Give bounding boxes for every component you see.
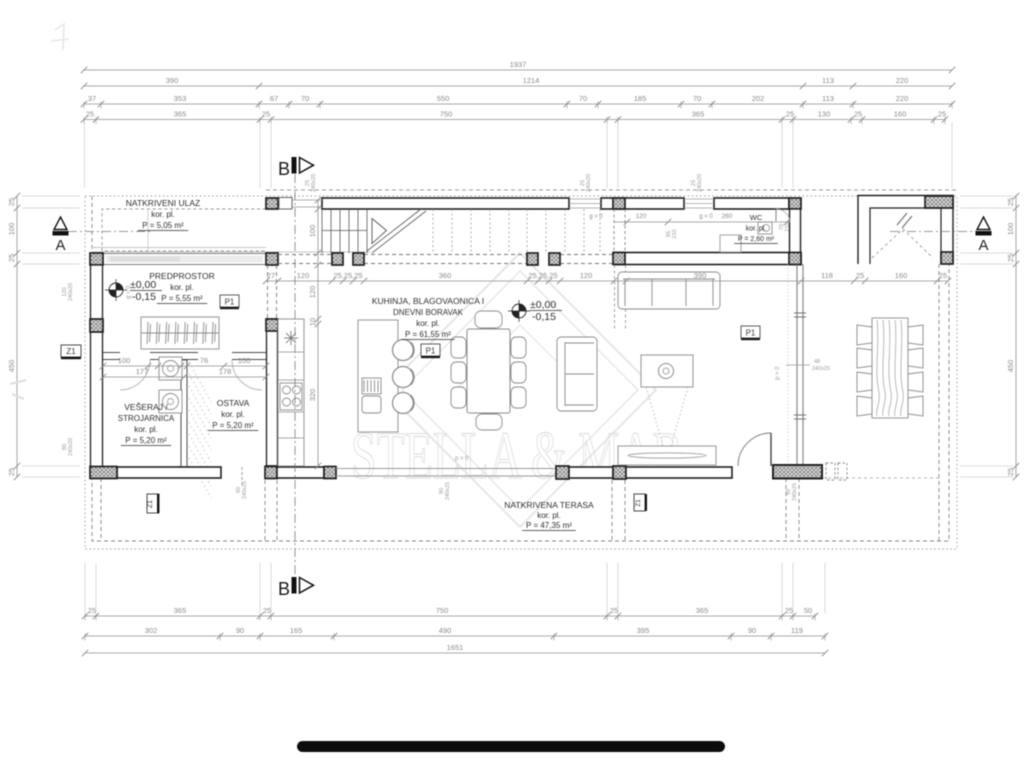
dining chairs left xyxy=(451,337,466,358)
terrace door arc xyxy=(738,433,771,466)
sliding door pocket hatched xyxy=(773,465,822,479)
svg-text:25: 25 xyxy=(610,606,618,615)
svg-text:113: 113 xyxy=(822,94,834,103)
svg-text:365: 365 xyxy=(174,606,187,615)
svg-text:240x25: 240x25 xyxy=(445,482,451,500)
stair break line xyxy=(367,209,426,253)
svg-text:360: 360 xyxy=(439,271,452,280)
dimension chain top row4 xyxy=(81,110,948,125)
interior dimension chain horizontal xyxy=(263,271,951,284)
label box P1 predprostor xyxy=(220,295,239,309)
wall: south band west wing xyxy=(117,467,221,478)
svg-text:P1: P1 xyxy=(426,347,436,356)
column south b xyxy=(324,467,336,479)
svg-text:240x20: 240x20 xyxy=(68,438,74,456)
svg-text:240x20: 240x20 xyxy=(586,174,592,192)
svg-text:kor. pl.: kor. pl. xyxy=(746,226,767,233)
svg-text:240x20: 240x20 xyxy=(68,283,74,301)
room label kuhinja dnevni boravak xyxy=(372,296,484,340)
svg-text:120: 120 xyxy=(308,286,317,299)
leader dim 48 xyxy=(786,364,810,366)
kitchen stove burners xyxy=(280,383,302,410)
svg-text:70: 70 xyxy=(579,94,587,103)
svg-text:-0,15: -0,15 xyxy=(532,311,556,323)
svg-text:70: 70 xyxy=(693,94,701,103)
kitchen sink star xyxy=(284,331,298,345)
label box P1 living xyxy=(421,344,440,358)
svg-text:Z1: Z1 xyxy=(147,500,154,508)
column north-entry xyxy=(266,198,278,209)
svg-text:KUHINJA, BLAGOVAONICA I: KUHINJA, BLAGOVAONICA I xyxy=(372,296,484,306)
dimension chain top row2 xyxy=(81,76,955,89)
svg-text:25: 25 xyxy=(88,606,96,615)
glass wall east of living room xyxy=(794,264,806,464)
svg-text:220: 220 xyxy=(896,94,909,103)
svg-text:1651: 1651 xyxy=(447,643,464,652)
svg-text:25: 25 xyxy=(263,606,271,615)
svg-text:50: 50 xyxy=(804,606,812,615)
tv board xyxy=(618,446,716,465)
wall: south band b xyxy=(277,467,324,478)
svg-text:25: 25 xyxy=(1006,254,1015,262)
column WC south-west xyxy=(613,253,625,265)
svg-text:118: 118 xyxy=(821,271,833,280)
column kitchen-wall upper xyxy=(266,319,278,331)
sofa vertical xyxy=(557,337,597,411)
svg-text:VEŠERAJ /: VEŠERAJ / xyxy=(124,402,168,412)
svg-text:320: 320 xyxy=(308,389,317,402)
svg-text:120: 120 xyxy=(580,271,593,280)
column WC south-east xyxy=(789,253,801,265)
terrace chairs right xyxy=(908,325,923,345)
column kitchen-wall lower xyxy=(266,466,278,478)
island stools xyxy=(393,340,414,361)
kitchen counter xyxy=(278,319,304,466)
svg-text:120: 120 xyxy=(297,271,310,280)
wall: predprostor south divider xyxy=(103,353,266,360)
wall: middle band west segment xyxy=(103,254,266,265)
room label natkriveni ulaz xyxy=(126,198,200,231)
dashed roof line above top wall xyxy=(266,189,957,191)
column west upper xyxy=(90,319,103,332)
svg-text:P = 61,55 m²: P = 61,55 m² xyxy=(405,330,451,339)
svg-text:550: 550 xyxy=(437,94,450,103)
svg-text:PREDPROSTOR: PREDPROSTOR xyxy=(149,271,215,281)
dimension chain bottom row1 xyxy=(82,606,818,621)
column pair stairs east xyxy=(527,253,538,265)
svg-text:240x20: 240x20 xyxy=(311,174,317,192)
dining table xyxy=(467,329,510,413)
garage dashed door swing xyxy=(872,229,933,258)
inner dashed boundary left and bottom xyxy=(92,196,949,541)
wall: vesraj-ostava divider xyxy=(181,360,187,467)
svg-text:450: 450 xyxy=(1006,360,1015,373)
porch dashed outline xyxy=(102,209,266,251)
svg-text:A: A xyxy=(978,237,988,254)
svg-text:Z1: Z1 xyxy=(635,499,642,507)
svg-text:390: 390 xyxy=(694,271,707,280)
wall: WC east vertical xyxy=(790,209,801,253)
dimension chain left xyxy=(7,193,20,480)
extension lines right chain xyxy=(22,196,1013,477)
WC toilet xyxy=(720,235,741,252)
column south d xyxy=(613,466,626,479)
svg-text:37: 37 xyxy=(88,94,96,103)
faint artifact left xyxy=(10,380,26,399)
svg-text:OSTAVA: OSTAVA xyxy=(217,398,250,408)
room label predprostor xyxy=(149,271,215,304)
svg-text:WC: WC xyxy=(750,213,763,222)
WC interior dim line xyxy=(614,221,789,223)
faint artifact top-left xyxy=(51,24,69,50)
garage roof slash marks xyxy=(897,213,912,228)
svg-text:B: B xyxy=(278,159,290,179)
svg-text:kor. pl.: kor. pl. xyxy=(170,283,194,292)
column middle west xyxy=(90,253,103,265)
big hatched pier south-west xyxy=(90,467,117,479)
svg-text:100: 100 xyxy=(1006,223,1015,236)
extension lines from top dims to plan xyxy=(85,122,953,188)
svg-text:113: 113 xyxy=(822,76,834,85)
terrace dining table xyxy=(872,318,908,418)
wall: south band c xyxy=(569,467,613,478)
svg-text:-0,15: -0,15 xyxy=(132,291,156,303)
dimension chain top row1 total 1937 xyxy=(81,60,955,73)
label box Z1 small west xyxy=(147,494,159,513)
porch floor edge lines xyxy=(92,247,266,249)
column middle porch-east xyxy=(266,253,278,265)
WC door arc xyxy=(776,209,790,223)
svg-text:25: 25 xyxy=(938,110,946,119)
svg-text:1937: 1937 xyxy=(510,60,527,69)
dimension chain right xyxy=(1006,193,1019,480)
section marker A right xyxy=(977,217,990,230)
svg-text:p = 0: p = 0 xyxy=(775,366,781,380)
bottom black bar xyxy=(297,741,725,752)
svg-text:P1: P1 xyxy=(225,298,235,307)
svg-text:STROJARNICA: STROJARNICA xyxy=(118,414,175,423)
svg-text:165: 165 xyxy=(290,626,303,635)
door opening south dashes xyxy=(241,467,243,487)
column north at WC west xyxy=(613,198,625,209)
svg-text:A: A xyxy=(55,237,65,254)
svg-text:210: 210 xyxy=(785,222,791,231)
svg-text:25,25,25: 25,25,25 xyxy=(333,271,362,280)
wall: south band d xyxy=(626,467,732,478)
svg-text:25: 25 xyxy=(7,198,16,206)
svg-text:DNEVNI BORAVAK: DNEVNI BORAVAK xyxy=(393,308,464,317)
wall: WC south band xyxy=(614,253,801,265)
svg-text:240x25: 240x25 xyxy=(242,481,248,499)
WC sink xyxy=(758,222,772,234)
projection dotted lines xyxy=(646,387,688,446)
svg-text:NATKRIVENA TERASA: NATKRIVENA TERASA xyxy=(504,500,594,510)
svg-text:g = 0: g = 0 xyxy=(126,285,132,299)
column garage big xyxy=(925,196,953,208)
svg-text:25: 25 xyxy=(856,271,864,280)
svg-text:25: 25 xyxy=(786,110,794,119)
stair direction arrow xyxy=(372,219,387,244)
column south c xyxy=(556,466,569,479)
svg-text:178: 178 xyxy=(219,367,232,376)
svg-text:g = 0: g = 0 xyxy=(699,214,713,220)
svg-text:25: 25 xyxy=(1006,468,1015,476)
stair hall east wall dashed xyxy=(614,209,625,253)
svg-text:P = 5,05 m²: P = 5,05 m² xyxy=(142,221,184,230)
svg-text:450: 450 xyxy=(7,360,16,373)
svg-text:160: 160 xyxy=(895,271,908,280)
svg-text:kor. pl.: kor. pl. xyxy=(221,410,245,419)
svg-text:120: 120 xyxy=(636,213,647,220)
svg-text:90: 90 xyxy=(236,626,244,635)
kitchen island xyxy=(358,320,398,432)
room label vesraj strojarnica xyxy=(118,402,175,446)
svg-text:202: 202 xyxy=(752,94,765,103)
svg-text:P = 5,20 m²: P = 5,20 m² xyxy=(125,436,167,445)
section line A left xyxy=(68,231,150,233)
shaft dotted strip xyxy=(189,362,211,498)
dining chairs right xyxy=(511,337,526,358)
svg-text:100: 100 xyxy=(238,356,251,365)
svg-text:490: 490 xyxy=(439,626,452,635)
fireplace xyxy=(641,355,693,387)
door opening predprostor-living dashed xyxy=(268,265,277,319)
svg-text:353: 353 xyxy=(174,94,187,103)
svg-text:1214: 1214 xyxy=(523,76,540,85)
svg-text:B: B xyxy=(278,579,290,599)
label box Z1 xyxy=(61,345,81,359)
wall: west exterior xyxy=(91,265,103,467)
svg-text:365: 365 xyxy=(696,606,709,615)
svg-text:10: 10 xyxy=(308,318,317,326)
svg-text:76: 76 xyxy=(200,356,208,365)
svg-text:177: 177 xyxy=(136,367,149,376)
wall: north wall main band xyxy=(322,198,569,209)
staircase xyxy=(322,209,367,253)
svg-text:Z1: Z1 xyxy=(66,347,76,356)
column south a xyxy=(265,467,277,479)
svg-text:25: 25 xyxy=(854,110,862,119)
svg-text:390: 390 xyxy=(166,76,179,85)
wall: kitchen west (predprostor east) xyxy=(267,319,278,467)
column garage small xyxy=(941,252,953,264)
extension lines from plan to bottom dims xyxy=(85,563,825,613)
label box Z1 small terrace xyxy=(634,494,647,511)
terrace chairs left xyxy=(857,325,872,345)
dining chair bottom xyxy=(476,414,502,430)
svg-text:210: 210 xyxy=(672,229,678,238)
svg-text:kor. pl.: kor. pl. xyxy=(537,511,561,520)
svg-text:240x25: 240x25 xyxy=(812,366,830,372)
svg-text:25: 25 xyxy=(939,271,947,280)
entry door opening xyxy=(278,200,322,207)
svg-text:365: 365 xyxy=(174,110,187,119)
svg-text:160: 160 xyxy=(894,110,907,119)
svg-text:kor. pl.: kor. pl. xyxy=(416,319,440,328)
washing machine 1 xyxy=(159,357,182,380)
dimension chain top row3 xyxy=(81,94,955,109)
svg-text:100: 100 xyxy=(308,225,317,238)
svg-text:P = 5,55 m²: P = 5,55 m² xyxy=(161,294,203,303)
dining chair top xyxy=(475,311,502,328)
svg-text:119: 119 xyxy=(791,626,803,635)
svg-text:g = 0: g = 0 xyxy=(589,214,603,220)
svg-text:P = 47,35 m²: P = 47,35 m² xyxy=(526,521,572,530)
outer dotted roof boundary xyxy=(85,196,957,549)
interior chain west rooms b xyxy=(100,367,269,380)
svg-text:365: 365 xyxy=(692,110,705,119)
svg-text:P1: P1 xyxy=(746,329,756,338)
dashed wall under stairs xyxy=(278,255,613,264)
column pair stairs west xyxy=(332,253,343,265)
column north-east xyxy=(789,198,801,209)
dashed column above terrace xyxy=(826,463,847,480)
svg-text:25: 25 xyxy=(1006,198,1015,206)
svg-text:P = 2,60 m²: P = 2,60 m² xyxy=(738,236,775,243)
svg-text:90: 90 xyxy=(748,626,756,635)
door arc vesraj xyxy=(120,360,150,390)
closet predprostor xyxy=(141,317,219,349)
svg-text:NATKRIVENI ULAZ: NATKRIVENI ULAZ xyxy=(126,198,200,208)
svg-text:240x20: 240x20 xyxy=(697,174,703,192)
window in north wall 1 xyxy=(569,199,601,208)
section line A right xyxy=(890,231,976,233)
svg-text:750: 750 xyxy=(436,606,449,615)
svg-text:70: 70 xyxy=(301,94,309,103)
svg-text:100: 100 xyxy=(118,356,131,365)
dashed beam lines under WC wall xyxy=(615,265,626,330)
terrace dashed vertical pair a xyxy=(101,264,939,541)
svg-text:25: 25 xyxy=(7,254,16,262)
island sink unit xyxy=(362,378,381,413)
svg-text:p = 0: p = 0 xyxy=(455,456,469,462)
glass wall south of living room xyxy=(336,469,556,477)
washing machine 2 xyxy=(159,390,182,413)
svg-text:25,25,25: 25,25,25 xyxy=(528,271,557,280)
interior chain west rooms a xyxy=(100,356,269,369)
small rotated window specs xyxy=(62,174,798,501)
svg-text:P = 5,20 m²: P = 5,20 m² xyxy=(212,421,254,430)
room label natkrivena terasa xyxy=(504,500,594,531)
svg-text:25: 25 xyxy=(785,606,793,615)
sofa horizontal xyxy=(618,272,720,309)
garage north structure xyxy=(858,196,953,265)
svg-text:750: 750 xyxy=(440,110,453,119)
room label wc xyxy=(734,213,778,244)
watermark logo diamond xyxy=(384,253,656,527)
svg-text:100: 100 xyxy=(7,223,16,236)
svg-text:67: 67 xyxy=(270,94,278,103)
dimension chain bottom row2 xyxy=(82,626,828,641)
svg-text:130: 130 xyxy=(818,110,831,119)
svg-text:±0,00: ±0,00 xyxy=(530,299,556,311)
level marker at living room xyxy=(508,300,530,322)
interior chain vertical kitchen xyxy=(308,197,321,469)
room label ostava xyxy=(208,398,258,431)
svg-text:27: 27 xyxy=(267,271,275,280)
dashed roof edge over terrace right xyxy=(822,477,939,479)
door arc ostava xyxy=(232,360,262,390)
level marker at predprostor xyxy=(105,279,127,301)
svg-text:25: 25 xyxy=(7,468,16,476)
svg-text:395: 395 xyxy=(637,626,650,635)
section marker A left xyxy=(54,217,67,230)
svg-text:48: 48 xyxy=(814,359,820,365)
svg-text:kor. pl.: kor. pl. xyxy=(134,425,158,434)
svg-text:240x25: 240x25 xyxy=(792,483,798,501)
stair dashed treads xyxy=(433,209,600,253)
svg-text:260: 260 xyxy=(722,213,733,220)
svg-text:25: 25 xyxy=(86,110,94,119)
label box P1 sofa xyxy=(741,326,760,340)
window in north wall 2 xyxy=(684,199,714,208)
svg-text:302: 302 xyxy=(145,626,158,635)
svg-text:25: 25 xyxy=(262,110,270,119)
section line B xyxy=(294,174,296,577)
dimension chain bottom row3 total 1651 xyxy=(82,643,828,656)
svg-text:220: 220 xyxy=(896,76,909,85)
svg-text:185: 185 xyxy=(634,94,647,103)
svg-text:kor. pl.: kor. pl. xyxy=(151,210,175,219)
